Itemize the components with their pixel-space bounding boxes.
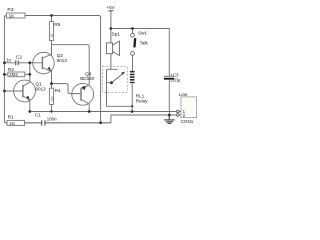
junction left rail / C2: [3, 61, 6, 64]
wire +5V drop: [110, 11, 112, 29]
capacitor C1: [42, 120, 45, 126]
relay dashed box: [103, 67, 128, 93]
ground: [164, 115, 175, 123]
svg-text:9013: 9013: [57, 58, 68, 63]
resistor R1: [7, 114, 25, 126]
svg-text:220µ: 220µ: [171, 77, 181, 82]
junction R3 line / bottom line: [99, 121, 102, 124]
svg-text:Line: Line: [179, 92, 188, 97]
junction relay contact return / coil: [131, 105, 133, 107]
resistor R3: [6, 7, 25, 18]
wire contact hook: [107, 69, 133, 106]
wire Q3 collector down: [88, 104, 90, 111]
wire R2 left pin: [4, 73, 8, 75]
wire left rail: [3, 17, 5, 121]
wire Q1 emitter down: [29, 101, 31, 112]
wire coil bottom: [131, 85, 133, 112]
svg-text:100n: 100n: [47, 117, 57, 122]
svg-text:C1: C1: [35, 112, 41, 117]
wire vertical x=100.6 top rail down to bottom line: [100, 17, 102, 123]
wire bottom line R1 C1: [4, 121, 111, 123]
wire C2 left: [4, 62, 15, 64]
wire R5 bottom to Q2 collector: [51, 40, 53, 55]
resistor R5: [49, 22, 60, 41]
svg-text:Relay: Relay: [136, 99, 148, 104]
wire R4 bottom pin: [51, 104, 53, 111]
junction left rail / R2: [3, 73, 6, 76]
wire switch top: [132, 29, 134, 34]
svg-text:Talk: Talk: [140, 40, 149, 45]
wire contact pivot branch: [107, 82, 112, 84]
wire rail B: [111, 114, 177, 116]
svg-text:BD140: BD140: [80, 76, 94, 81]
wire rail A: [30, 111, 177, 113]
svg-text:CON1: CON1: [181, 119, 194, 124]
junction R2 / Q1 collector node: [28, 73, 31, 76]
svg-text:+5V: +5V: [106, 5, 115, 10]
junction R4 / ground rail: [50, 110, 52, 112]
svg-text:C2: C2: [16, 55, 22, 60]
transistor Q1: [14, 80, 36, 102]
wire C2 right to Q2 base: [18, 62, 42, 64]
svg-text:R5: R5: [54, 22, 60, 28]
transistor Q3 BD140 pnp: [72, 83, 94, 105]
wire speaker bottom to contact: [110, 54, 112, 70]
junction Q3 collector / ground rail: [88, 110, 91, 113]
wire Q2 emitter down to node: [51, 70, 53, 88]
relay contact lever: [112, 73, 124, 83]
wire speaker top: [110, 29, 112, 43]
svg-text:1K: 1K: [50, 33, 54, 38]
wire C3 bottom to rail B: [168, 80, 170, 115]
wire R2 right pin: [25, 73, 30, 75]
svg-text:1n: 1n: [6, 58, 12, 63]
resistor R4: [49, 88, 61, 105]
svg-text:150: 150: [51, 96, 55, 102]
svg-text:R3: R3: [7, 7, 13, 13]
capacitor C2: [16, 60, 18, 65]
relay contact pivot dot: [110, 81, 113, 84]
wire pin2 stub: [179, 114, 181, 116]
wire pin1 stub: [179, 111, 181, 113]
junction Q1 emitter / ground rail: [28, 110, 31, 113]
wire top rail: [4, 16, 100, 18]
svg-text:Sw1: Sw1: [138, 30, 147, 35]
wire node x=30 vertical: [29, 63, 31, 82]
wire Q1 base: [4, 90, 23, 92]
transistor Q2: [33, 45, 55, 84]
junction +5V rail / switch: [131, 27, 134, 30]
svg-text:R2: R2: [8, 67, 14, 73]
junction C2 / Q2 base node: [28, 61, 31, 64]
svg-text:1K: 1K: [9, 13, 16, 18]
svg-text:1K: 1K: [9, 121, 16, 126]
switch Sw1 Talk: [131, 33, 135, 55]
wire +5V rail right: [111, 29, 169, 76]
capacitor C3 electrolytic: [164, 73, 181, 83]
junction +5V rail / speaker: [110, 27, 113, 30]
wire corner rail B down to bottom line: [110, 115, 112, 123]
speaker Sp1: [106, 41, 119, 56]
wire node to Q3 emitter: [52, 45, 90, 85]
wire switch bottom to coil: [132, 55, 134, 70]
connector CON1: [177, 92, 197, 124]
relay coil RL1: [130, 71, 135, 83]
junction relay coil / ground rail: [131, 110, 134, 113]
wire R5 top pin: [51, 16, 53, 22]
svg-text:R1: R1: [8, 114, 14, 120]
junction R3/R5 top rail: [50, 14, 53, 17]
svg-text:Sp1: Sp1: [112, 31, 121, 37]
resistor R2: [8, 67, 25, 77]
junction left rail / Q1 base: [3, 90, 6, 93]
svg-text:R4: R4: [55, 88, 61, 94]
junction C3 / line rail / ground: [168, 114, 171, 117]
wire node to Q3 base: [52, 84, 82, 94]
svg-text:2M2: 2M2: [9, 72, 18, 77]
svg-text:9013: 9013: [35, 86, 46, 91]
junction Q2 emitter / R4 / Q3 base: [50, 82, 53, 85]
